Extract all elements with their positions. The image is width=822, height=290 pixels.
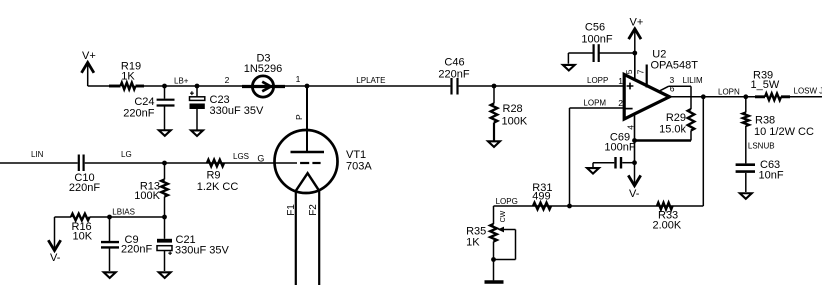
svg-text:330uF 35V: 330uF 35V — [175, 244, 229, 256]
svg-text:LIN: LIN — [31, 150, 44, 159]
svg-text:LB+: LB+ — [174, 77, 189, 86]
svg-text:LPLATE: LPLATE — [356, 76, 385, 85]
svg-text:LG: LG — [121, 150, 132, 159]
svg-text:LOPN: LOPN — [718, 87, 740, 96]
svg-text:100nF: 100nF — [604, 142, 635, 154]
svg-text:LOSW J: LOSW J — [794, 87, 822, 96]
svg-text:1: 1 — [618, 76, 623, 86]
svg-text:10K: 10K — [73, 231, 93, 243]
svg-text:LGS: LGS — [233, 152, 249, 161]
svg-text:LOPP: LOPP — [587, 76, 608, 85]
svg-text:LOPG: LOPG — [496, 197, 518, 206]
svg-text:2: 2 — [225, 75, 230, 85]
svg-text:220nF: 220nF — [438, 69, 469, 81]
svg-text:330uF 35V: 330uF 35V — [210, 105, 264, 117]
svg-text:C56: C56 — [585, 22, 605, 34]
svg-text:F1: F1 — [286, 204, 297, 216]
svg-text:F2: F2 — [308, 204, 319, 216]
svg-text:R38: R38 — [755, 115, 775, 127]
svg-text:1N5296: 1N5296 — [244, 63, 283, 75]
svg-text:V-: V- — [50, 252, 61, 264]
svg-text:15.0k: 15.0k — [659, 123, 686, 135]
svg-text:R28: R28 — [503, 103, 523, 115]
svg-text:OPA548T: OPA548T — [651, 60, 699, 72]
svg-text:2.00K: 2.00K — [653, 220, 682, 232]
svg-text:V-: V- — [629, 188, 640, 200]
svg-text:100K: 100K — [502, 115, 528, 127]
svg-text:V+: V+ — [630, 17, 644, 29]
svg-text:703A: 703A — [346, 161, 372, 173]
svg-text:V+: V+ — [82, 50, 96, 62]
svg-text:220nF: 220nF — [69, 182, 100, 194]
svg-text:G: G — [257, 154, 264, 164]
svg-text:C46: C46 — [444, 57, 464, 69]
svg-text:LBIAS: LBIAS — [112, 208, 135, 217]
svg-text:1.2K CC: 1.2K CC — [197, 181, 239, 193]
svg-text:4: 4 — [625, 125, 635, 130]
svg-text:C24: C24 — [134, 96, 154, 108]
svg-text:7: 7 — [635, 69, 645, 74]
svg-text:499: 499 — [532, 191, 550, 203]
svg-text:6: 6 — [670, 83, 675, 93]
svg-text:R9: R9 — [206, 170, 220, 182]
svg-text:1: 1 — [296, 74, 301, 84]
svg-text:100nF: 100nF — [581, 34, 612, 46]
svg-text:10nF: 10nF — [759, 170, 784, 182]
svg-text:CW: CW — [500, 210, 507, 222]
svg-text:10 1/2W CC: 10 1/2W CC — [754, 126, 814, 138]
svg-text:2: 2 — [618, 98, 623, 108]
svg-text:LSNUB: LSNUB — [748, 142, 775, 151]
svg-text:5: 5 — [624, 69, 634, 74]
svg-text:1K: 1K — [466, 237, 480, 249]
svg-text:R29: R29 — [666, 112, 686, 124]
svg-text:LILIM: LILIM — [683, 76, 703, 85]
svg-text:1_5W: 1_5W — [751, 79, 780, 91]
svg-text:220nF: 220nF — [121, 244, 152, 256]
svg-text:VT1: VT1 — [346, 149, 366, 161]
svg-text:P: P — [294, 114, 304, 120]
svg-text:100K: 100K — [134, 190, 160, 202]
svg-text:LOPM: LOPM — [583, 99, 606, 108]
svg-text:1K: 1K — [121, 71, 135, 83]
svg-text:220nF: 220nF — [123, 108, 154, 120]
